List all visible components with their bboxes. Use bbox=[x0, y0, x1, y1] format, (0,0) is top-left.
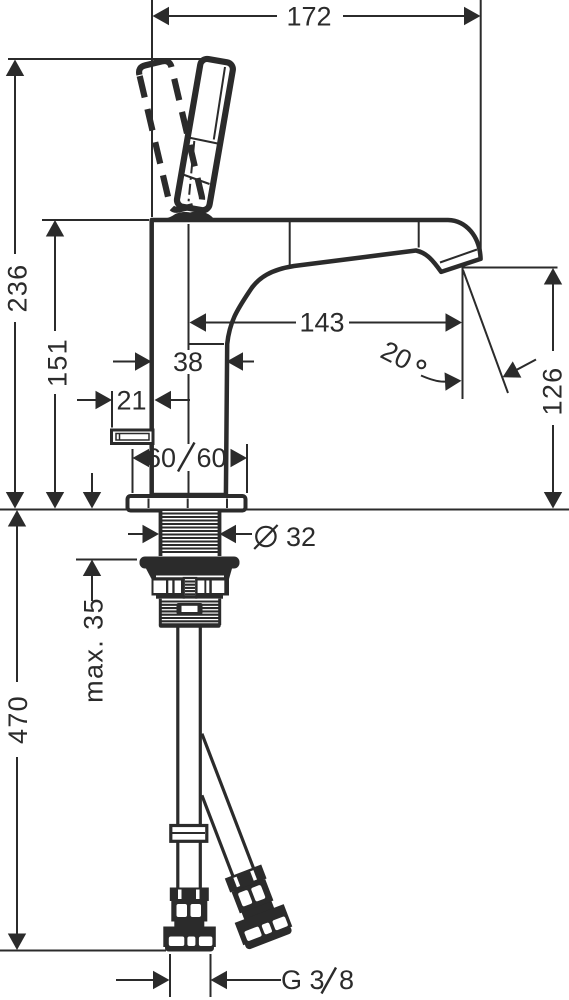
countertop reference line bbox=[0, 509, 127, 511]
svg-text:21: 21 bbox=[116, 386, 146, 416]
svg-text:38: 38 bbox=[173, 347, 203, 377]
spout outlet inner face line bbox=[440, 250, 477, 263]
svg-text:126: 126 bbox=[538, 367, 568, 416]
assembly bottom edge bbox=[161, 623, 219, 628]
mounting flange bbox=[140, 557, 240, 569]
svg-text:151: 151 bbox=[43, 338, 73, 387]
dim 470 bottom extension line bbox=[0, 950, 166, 952]
svg-text:470: 470 bbox=[3, 695, 33, 744]
diagonal supply hose bbox=[202, 734, 255, 872]
outlet vertical reference line bbox=[462, 269, 464, 400]
svg-text:172: 172 bbox=[286, 2, 331, 32]
dim 21 bbox=[77, 399, 96, 401]
vertical supply pipe bbox=[176, 627, 179, 888]
dim 21 right arrow bbox=[155, 391, 172, 409]
faucet body outline bbox=[152, 220, 481, 495]
spout segment line 1 bbox=[289, 222, 291, 266]
diagonal hose fitting bbox=[219, 862, 295, 951]
nut lower band bbox=[156, 596, 223, 599]
svg-text:60: 60 bbox=[196, 443, 226, 473]
dim 21 extension line bbox=[111, 391, 113, 428]
dim 470 bbox=[16, 526, 18, 682]
knurled mounting nut bbox=[152, 579, 230, 596]
handle pivot mound bbox=[153, 212, 214, 222]
body section line bbox=[189, 343, 225, 345]
dim 143 bbox=[349, 322, 446, 324]
pipe sleeve bbox=[171, 826, 207, 842]
vertical pipe fitting bbox=[163, 888, 216, 952]
dim 151 bbox=[54, 236, 56, 331]
handle solid bbox=[176, 58, 234, 211]
svg-text:60: 60 bbox=[146, 443, 176, 473]
dim 60/60 extension lines bbox=[132, 449, 134, 493]
handle inner lines bbox=[189, 138, 221, 145]
dim G3/8 extension lines bbox=[169, 954, 171, 997]
dim 236 extension line top bbox=[8, 58, 202, 60]
svg-text:G 3: G 3 bbox=[281, 965, 325, 995]
dim 172 bbox=[169, 15, 277, 17]
dim 143 left arrow bbox=[190, 313, 207, 331]
dim 126 bbox=[552, 284, 554, 351]
dim 172 extension line right bbox=[480, 0, 482, 257]
threaded shank bbox=[160, 511, 220, 556]
dim G3/8 bbox=[116, 979, 154, 981]
dim 236 bbox=[14, 74, 16, 254]
handle dashed position bbox=[138, 60, 204, 212]
dim 126 reference line horizontal bbox=[462, 267, 558, 269]
threaded stud bbox=[184, 578, 196, 607]
angle leader right bbox=[506, 360, 536, 376]
dim 172 extension line left bbox=[151, 0, 153, 217]
flange lower band bbox=[146, 569, 232, 580]
svg-text:236: 236 bbox=[3, 264, 33, 313]
dim 60/60 arrows bbox=[133, 449, 150, 467]
dim 38 bbox=[113, 361, 136, 363]
side element 21 box bbox=[112, 430, 154, 444]
body center line bbox=[188, 224, 190, 350]
angle leader left bbox=[421, 376, 446, 382]
dim 151 extension line bbox=[42, 219, 149, 221]
stud clamp bbox=[177, 603, 203, 615]
svg-text:32: 32 bbox=[286, 522, 316, 552]
svg-text:8: 8 bbox=[339, 965, 354, 995]
water stream line 20deg bbox=[463, 270, 508, 393]
dim O32 bbox=[128, 533, 143, 535]
handle axis dash-dot bbox=[188, 141, 195, 210]
svg-text:max. 35: max. 35 bbox=[79, 597, 109, 703]
base plate bbox=[128, 496, 246, 511]
lower threaded section bbox=[159, 599, 220, 627]
dim max35 bbox=[91, 473, 93, 493]
dim max35 extension line bbox=[76, 559, 137, 561]
svg-text:143: 143 bbox=[299, 308, 344, 338]
spout segment line 2 bbox=[418, 222, 420, 248]
base plate inner lines bbox=[148, 499, 150, 509]
